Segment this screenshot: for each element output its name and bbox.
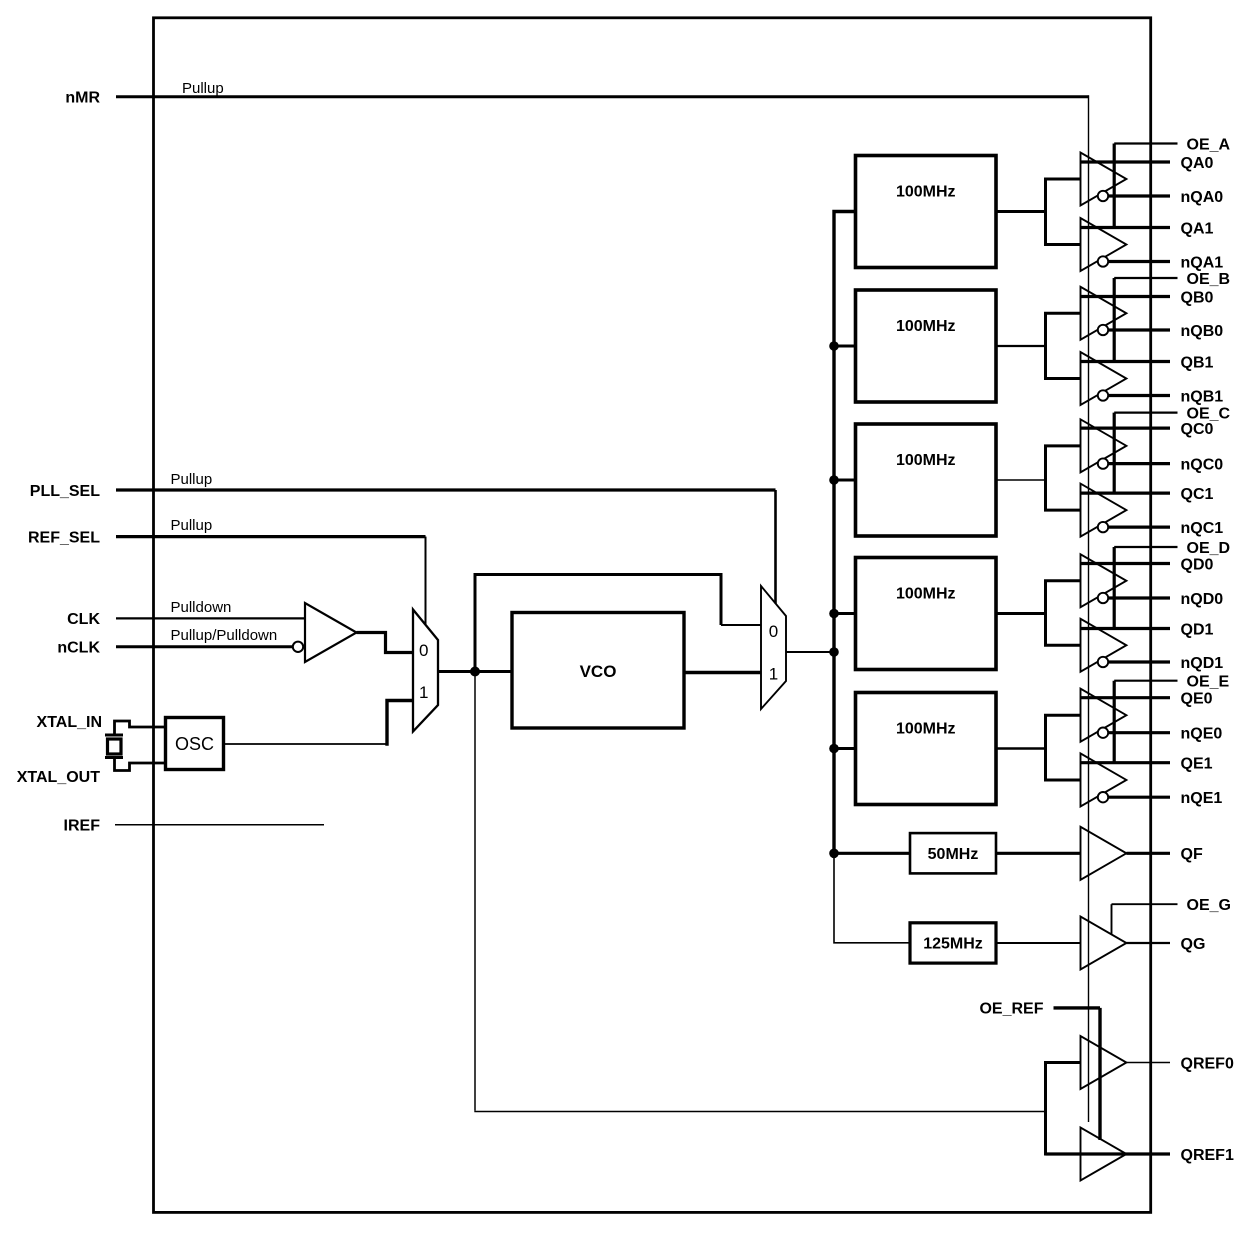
svg-text:OE_B: OE_B [1187, 271, 1231, 288]
wire 100MHz bank C output to splitter [996, 479, 1046, 481]
wire OE_B horizontal [1114, 277, 1177, 279]
output buffer QA1/nQA1 [1081, 218, 1127, 271]
wire PLL_SEL horizontal [116, 488, 776, 491]
output buffer QC0/nQC0 [1081, 419, 1127, 472]
svg-text:QREF1: QREF1 [1181, 1147, 1234, 1164]
svg-text:nCLK: nCLK [57, 640, 100, 657]
wire output QD1 [1081, 627, 1171, 630]
wire nMR vertical drop to output enables [1088, 95, 1090, 1122]
svg-text:XTAL_IN: XTAL_IN [37, 714, 102, 731]
inverting bubble nQA1 [1098, 256, 1108, 266]
wire XTAL_OUT jog into OSC [115, 758, 167, 771]
svg-text:Pullup: Pullup [171, 471, 213, 488]
output buffer QD1/nQD1 [1081, 619, 1127, 672]
wire output QG [1126, 942, 1170, 944]
svg-text:PLL_SEL: PLL_SEL [30, 483, 100, 500]
wire output nQA0 [1108, 194, 1170, 197]
input buffer U1 (CLK/nCLK differential receiver) [305, 603, 357, 662]
wire PLL bypass drop [720, 573, 723, 625]
wire OE_G horizontal [1112, 903, 1178, 905]
svg-text:QB0: QB0 [1181, 289, 1214, 306]
oscillator block OSC [166, 718, 224, 770]
wire output QREF1 [1046, 1152, 1171, 1155]
junction node after mux U2 [470, 667, 480, 677]
wire node drop to QREF feed [474, 672, 476, 1111]
wire XTAL_IN jog into OSC [115, 721, 167, 735]
crystal X1 top plate [105, 734, 123, 737]
wire 50MHz output to QF buffer [996, 852, 1081, 855]
divider block 125MHz [910, 923, 996, 963]
inverting bubble nQD1 [1098, 657, 1108, 667]
svg-text:100MHz: 100MHz [896, 318, 956, 335]
svg-text:Pulldown: Pulldown [171, 599, 232, 616]
wire output nQA1 [1108, 260, 1170, 263]
wire IREF stub [115, 824, 324, 826]
wire mux U3 output to distribution node [786, 651, 834, 653]
wire nCLK to input buffer [116, 645, 293, 648]
wire VCO output to mux U3 input 1 [684, 671, 761, 674]
wire PLL_SEL vertical to mux U3 select [774, 490, 777, 604]
svg-text:Pullup/Pulldown: Pullup/Pulldown [171, 627, 278, 644]
svg-text:QD0: QD0 [1181, 556, 1214, 573]
inverting bubble nQB1 [1098, 390, 1108, 400]
wire OE_D vertical to buffers [1113, 547, 1116, 629]
svg-text:Pullup: Pullup [171, 517, 213, 534]
inverting bubble nQE1 [1098, 792, 1108, 802]
output buffer QREF1 [1081, 1128, 1127, 1181]
crystal X1 body [108, 739, 122, 754]
mux U2 (REF_SEL input mux) [413, 610, 438, 732]
svg-text:QA1: QA1 [1181, 220, 1214, 237]
wire 100MHz bank B output to splitter [996, 345, 1046, 347]
svg-text:nQC0: nQC0 [1181, 456, 1224, 473]
splitter bracket bank A [1046, 179, 1081, 245]
junction distribution / bank C [829, 475, 839, 485]
mux U3 (PLL_SEL bypass mux) [761, 586, 786, 709]
svg-text:nQE0: nQE0 [1181, 726, 1223, 743]
svg-text:QG: QG [1181, 936, 1206, 953]
junction distribution / 50MHz [829, 849, 839, 859]
output buffer QC1/nQC1 [1081, 484, 1127, 537]
divider block 100MHz (bank D) [856, 558, 997, 670]
output buffer QF [1081, 827, 1127, 880]
svg-text:100MHz: 100MHz [896, 452, 956, 469]
splitter bracket bank D [1046, 581, 1081, 646]
svg-text:QA0: QA0 [1181, 155, 1214, 172]
svg-text:100MHz: 100MHz [896, 586, 956, 603]
wire distribution stub to 100MHz bank E [834, 747, 856, 750]
junction distribution / bank B [829, 341, 839, 351]
inverting bubble nQD0 [1098, 593, 1108, 603]
svg-text:125MHz: 125MHz [923, 936, 983, 953]
wire output nQB0 [1108, 328, 1170, 331]
svg-text:nQC1: nQC1 [1181, 520, 1224, 537]
output buffer QB0/nQB0 [1081, 287, 1127, 340]
svg-text:100MHz: 100MHz [896, 721, 956, 738]
wire PLL feedback riser (node to bypass) [474, 573, 477, 672]
svg-text:XTAL_OUT: XTAL_OUT [17, 769, 100, 786]
divider block 50MHz [910, 833, 996, 873]
wire output nQD1 [1108, 660, 1170, 663]
splitter bracket bank E [1046, 715, 1081, 780]
svg-text:Pullup: Pullup [182, 80, 224, 97]
wire PLL bypass horizontal [474, 573, 722, 576]
wire input buffer output to mux U2 input 0 [357, 633, 414, 653]
wire CLK to input buffer [116, 617, 305, 619]
wire 125MHz output to QG buffer [996, 942, 1081, 944]
wire distribution stub to 100MHz bank B [834, 345, 856, 348]
wire output QA1 [1081, 226, 1171, 229]
wire OE_B vertical to buffers [1113, 278, 1116, 362]
wire output QE0 [1081, 696, 1171, 699]
output buffer QG [1081, 917, 1127, 970]
wire output QC0 [1081, 427, 1171, 430]
svg-text:IREF: IREF [64, 818, 101, 835]
inverting bubble nQC0 [1098, 458, 1108, 468]
junction mux U3 output on distribution line [829, 647, 839, 657]
wire output nQC0 [1108, 462, 1170, 465]
splitter bracket QREF [1046, 1063, 1081, 1155]
wire output nQE0 [1108, 731, 1170, 734]
svg-text:QREF0: QREF0 [1181, 1055, 1234, 1072]
divider block 100MHz (bank B) [856, 290, 997, 402]
svg-text:QE0: QE0 [1181, 691, 1213, 708]
wire output QE1 [1081, 761, 1171, 764]
wire OE_A vertical to buffers [1113, 144, 1116, 228]
svg-text:nQD0: nQD0 [1181, 591, 1224, 608]
wire OE_REF horizontal [1054, 1006, 1101, 1009]
svg-text:OSC: OSC [175, 734, 214, 754]
svg-text:1: 1 [419, 683, 428, 702]
svg-text:QB1: QB1 [1181, 354, 1214, 371]
svg-text:OE_D: OE_D [1187, 540, 1231, 557]
svg-text:100MHz: 100MHz [896, 184, 956, 201]
svg-text:OE_REF: OE_REF [979, 1001, 1043, 1018]
mux U2 select labels 0/1 [419, 641, 428, 702]
svg-text:nQA1: nQA1 [1181, 254, 1224, 271]
wire OE_G vertical to QG buffer [1111, 904, 1113, 934]
wire distribution lower (to 125MHz) [834, 853, 910, 943]
wire OE_E vertical to buffers [1113, 681, 1116, 763]
svg-text:OE_G: OE_G [1187, 897, 1231, 914]
junction distribution / bank D [829, 609, 839, 619]
svg-text:50MHz: 50MHz [928, 846, 979, 863]
wire 100MHz bank A output to splitter [996, 210, 1046, 213]
svg-text:nQD1: nQD1 [1181, 655, 1224, 672]
wire PLL bypass into mux U3 input 0 [721, 624, 761, 626]
wire output nQE1 [1108, 796, 1170, 799]
wire 100MHz bank E output to splitter [996, 747, 1046, 750]
svg-text:1: 1 [769, 665, 778, 684]
wire REF_SEL horizontal [116, 535, 426, 538]
wire output QB1 [1081, 360, 1171, 363]
wire mux U2 output to VCO input [438, 670, 512, 673]
svg-text:QD1: QD1 [1181, 621, 1214, 638]
svg-text:nQB0: nQB0 [1181, 323, 1224, 340]
junction distribution / bank E [829, 744, 839, 754]
wire output QF [1126, 852, 1170, 855]
wire output nQC1 [1108, 525, 1170, 528]
wire output nQB1 [1108, 394, 1170, 397]
wire nMR horizontal [116, 95, 1089, 98]
wire output QC1 [1081, 492, 1171, 495]
svg-text:nQE1: nQE1 [1181, 790, 1223, 807]
svg-text:OE_C: OE_C [1187, 405, 1231, 422]
svg-text:OE_A: OE_A [1187, 136, 1231, 153]
inverting bubble nQB0 [1098, 325, 1108, 335]
inverting bubble nQA0 [1098, 191, 1108, 201]
wire REF_SEL vertical to mux U2 select [425, 537, 427, 624]
inverting bubble nQC1 [1098, 522, 1108, 532]
inverting bubble nQE0 [1098, 728, 1108, 738]
splitter bracket bank B [1046, 313, 1081, 378]
wire distribution stub to 50MHz [834, 852, 910, 855]
wire OE_REF vertical to QREF buffers [1098, 1008, 1101, 1140]
svg-text:OE_E: OE_E [1187, 674, 1230, 691]
wire 100MHz bank D output to splitter [996, 612, 1046, 615]
output buffer QE0/nQE0 [1081, 689, 1127, 742]
wire output QB0 [1081, 295, 1171, 298]
svg-text:nQB1: nQB1 [1181, 388, 1224, 405]
svg-text:CLK: CLK [67, 611, 100, 628]
wire OE_A horizontal [1114, 142, 1177, 144]
wire output QD0 [1081, 562, 1171, 565]
mux U3 select labels 0/1 [769, 622, 778, 684]
svg-text:REF_SEL: REF_SEL [28, 529, 100, 546]
divider block 100MHz (bank E) [856, 693, 997, 805]
inverting bubble on nCLK input [293, 642, 303, 652]
wire distribution stub to 100MHz bank C [834, 479, 856, 482]
output buffer QE1/nQE1 [1081, 753, 1127, 806]
svg-text:nMR: nMR [65, 90, 100, 107]
output buffer QB1/nQB1 [1081, 352, 1127, 405]
wire OE_D horizontal [1114, 546, 1177, 548]
svg-text:QE1: QE1 [1181, 756, 1213, 773]
svg-text:QF: QF [1181, 846, 1203, 863]
splitter bracket bank C [1046, 446, 1081, 510]
svg-text:QC1: QC1 [1181, 486, 1214, 503]
output buffer QA0/nQA0 [1081, 153, 1127, 206]
crystal X1 bottom plate [105, 756, 123, 759]
output buffer QREF0 [1081, 1036, 1127, 1089]
output buffer QD0/nQD0 [1081, 554, 1127, 607]
svg-text:nQA0: nQA0 [1181, 189, 1224, 206]
wire OSC riser to mux U2 input 1 [387, 701, 413, 746]
VCO block [512, 613, 684, 729]
divider block 100MHz (bank A) [856, 156, 997, 268]
wire OE_C horizontal [1114, 412, 1177, 414]
wire output QA0 [1081, 160, 1171, 163]
wire OSC output [224, 743, 388, 745]
chip boundary [154, 18, 1151, 1213]
svg-text:QC0: QC0 [1181, 421, 1214, 438]
divider block 100MHz (bank C) [856, 424, 997, 536]
svg-text:0: 0 [769, 622, 778, 641]
wire output QREF0 [1126, 1062, 1170, 1064]
wire distribution stub to 100MHz bank D [834, 612, 856, 615]
svg-text:0: 0 [419, 641, 428, 660]
svg-text:VCO: VCO [580, 662, 617, 681]
wire QREF feed horizontal [474, 1111, 1045, 1113]
wire output nQD0 [1108, 596, 1170, 599]
wire OE_C vertical to buffers [1113, 413, 1116, 494]
wire OE_E horizontal [1114, 680, 1177, 682]
wire clock distribution vertical [834, 212, 856, 854]
